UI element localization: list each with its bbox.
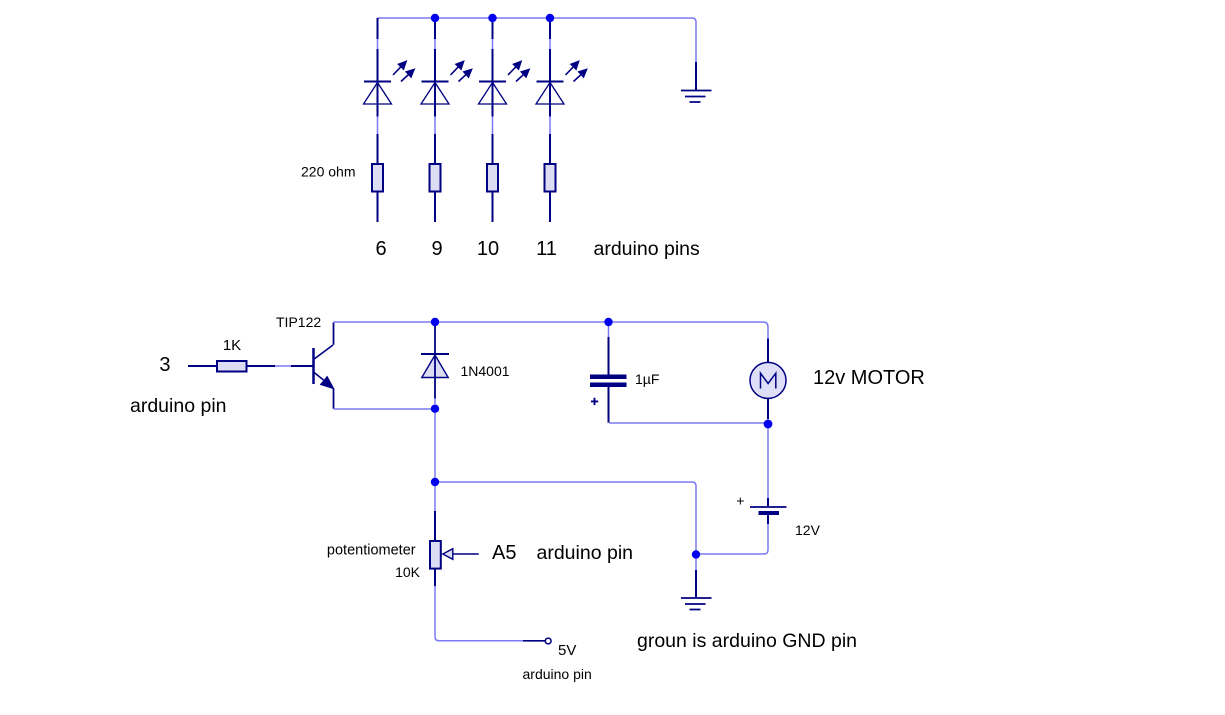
LED D3 [479,18,530,163]
node junction dot rail/LED3 [488,14,496,22]
svg-text:1µF: 1µF [635,371,659,387]
node junction dot cap top [604,318,612,326]
LED D2 [421,18,472,163]
battery B1 12V [750,498,787,524]
svg-text:1N4001: 1N4001 [461,363,510,379]
node junction dot ground [692,550,700,558]
node junction dot motor bottom [764,420,773,429]
wire LED column 2 [434,18,436,163]
svg-text:arduino pins: arduino pins [594,238,700,260]
svg-text:+: + [736,493,744,509]
wire base lead [248,365,276,367]
svg-text:220 ohm: 220 ohm [301,164,355,180]
svg-text:groun is arduino GND pin: groun is arduino GND pin [637,630,857,652]
wire pot top [434,482,436,511]
wire top rail to ground [378,18,697,62]
svg-text:A5: A5 [492,542,516,564]
svg-text:12V: 12V [795,522,821,538]
svg-text:11: 11 [536,238,557,260]
LED D4 [536,18,587,163]
svg-text:arduino pin: arduino pin [523,666,592,682]
svg-text:arduino pin: arduino pin [537,542,634,564]
wire LED column 3 [492,18,494,163]
wire 5V pin lead [523,640,545,642]
wire pot bottom to 5V [435,586,523,641]
wire collector rail [435,322,768,362]
resistor R1 220 ohm [372,164,383,192]
resistor R3 220 ohm [487,164,498,192]
node junction dot pot branch [431,478,439,486]
label + (capacitor) [591,398,598,405]
resistor R5 1K [217,361,247,372]
node junction dot diode bottom [431,405,439,413]
wire motor bottom [767,419,769,424]
svg-text:6: 6 [375,238,386,260]
svg-text:TIP122: TIP122 [276,314,321,330]
svg-text:3: 3 [159,354,170,376]
node junction dot diode top [431,318,439,326]
node junction dot rail/LED2 [431,14,439,22]
wire battery to ground junction [696,524,768,554]
wire A5 branch to ground junction [435,482,696,551]
wire cap bottom to motor bottom [609,422,768,424]
wire pin below R2 [434,192,436,223]
node junction dot rail/LED4 [546,14,554,22]
ground GND1 top right [681,62,712,102]
motor M1 [750,339,786,420]
svg-text:1K: 1K [223,337,241,354]
transistor Q1 TIP122 [314,345,334,389]
diode D5 1N4001 [421,326,449,404]
wire junction to ground [695,555,697,571]
svg-text:9: 9 [431,238,442,260]
resistor R4 220 ohm [545,164,556,192]
wire diode junction down to pot junction [434,409,436,482]
wire collector to rail [333,323,335,345]
wire pin below R1 [377,192,379,223]
ground GND2 [681,570,712,610]
node 5V open terminal [545,638,551,644]
capacitor C1 1uF [590,322,627,423]
wire pin below R4 [549,192,551,223]
wire LED column 1 [377,18,379,163]
resistor R2 220 ohm [430,164,441,192]
wire emitter to diode bottom [333,389,335,409]
wire pin below R3 [492,192,494,223]
wire LED column 4 [549,18,551,163]
svg-text:12v MOTOR: 12v MOTOR [813,367,925,389]
LED D1 [364,18,415,163]
svg-text:10K: 10K [395,564,421,580]
svg-text:5V: 5V [558,642,576,659]
svg-text:potentiometer: potentiometer [327,543,416,559]
wire pin 3 lead [188,365,216,367]
svg-text:arduino pin: arduino pin [130,395,227,417]
svg-text:10: 10 [477,238,499,260]
wire motor junction to battery [767,424,769,499]
potentiometer R6 10K [430,511,479,586]
